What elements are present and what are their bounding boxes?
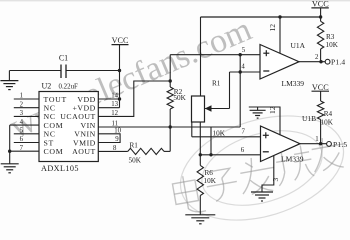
wire U1A power pin 3 bbox=[279, 17, 281, 53]
svg-text:VIN: VIN bbox=[80, 121, 95, 130]
svg-text:12: 12 bbox=[268, 106, 277, 114]
wire pin 12 UCAOUT bbox=[98, 81, 170, 116]
wire VCC rail bbox=[201, 16, 322, 18]
svg-text:+VDD: +VDD bbox=[73, 104, 96, 113]
wire pin 10-9 loop VNIN-VMID bbox=[98, 134, 120, 143]
svg-text:4: 4 bbox=[20, 119, 24, 126]
wire U1B - input row bbox=[200, 154, 260, 156]
svg-text:4: 4 bbox=[241, 64, 245, 71]
IC U2 ADXL105 body bbox=[39, 92, 98, 162]
svg-text:3: 3 bbox=[20, 110, 24, 117]
junction VCC rail / U1A power stub bbox=[278, 15, 281, 18]
svg-text:1: 1 bbox=[20, 93, 23, 100]
wire U1B ground pin 12 bbox=[249, 107, 280, 135]
wire pin 14 bbox=[98, 98, 119, 100]
svg-text:12: 12 bbox=[268, 24, 277, 32]
svg-text:VCC: VCC bbox=[112, 36, 129, 45]
wire U1B output bbox=[300, 143, 327, 145]
svg-text:5: 5 bbox=[242, 47, 246, 54]
resistor R1 50K (horizontal) bbox=[128, 148, 164, 154]
op-amp U1B LM339 bbox=[261, 126, 301, 162]
svg-text:5: 5 bbox=[20, 128, 24, 135]
svg-text:VDD: VDD bbox=[77, 95, 95, 104]
svg-text:TOUT: TOUT bbox=[44, 95, 67, 104]
op-amp U1A LM339 bbox=[260, 45, 299, 80]
svg-text:2: 2 bbox=[315, 54, 319, 61]
wire pin 13 bbox=[98, 107, 119, 109]
svg-text:7: 7 bbox=[241, 129, 245, 136]
junction node B (VIN/R1/R2) bbox=[169, 125, 172, 128]
wire pin 2 bbox=[14, 107, 39, 109]
junction pin7/bus bbox=[8, 150, 11, 153]
wire pin 4 bbox=[10, 124, 39, 126]
svg-text:10K: 10K bbox=[321, 119, 334, 127]
svg-text:R1: R1 bbox=[212, 79, 221, 87]
resistor R6 10K bbox=[197, 165, 203, 195]
wire VCC down to pins 14,13 bbox=[119, 71, 121, 108]
svg-text:9: 9 bbox=[115, 136, 119, 143]
resistor R3 10K bbox=[320, 17, 322, 21]
svg-text:COM: COM bbox=[44, 147, 64, 156]
ground (C1 left) bbox=[0, 71, 18, 90]
svg-text:3: 3 bbox=[271, 178, 280, 182]
svg-text:AOUT: AOUT bbox=[72, 147, 96, 156]
wire pin 6 bbox=[14, 142, 39, 144]
junction VCC/C1 bbox=[118, 69, 121, 72]
svg-text:6: 6 bbox=[20, 136, 24, 143]
pot wiper arrow bbox=[205, 72, 230, 112]
svg-text:UCAOUT: UCAOUT bbox=[60, 112, 96, 121]
ground (U1B pin12) bbox=[250, 107, 266, 118]
ground (U1B pin3) bbox=[251, 192, 273, 201]
terminal P1.4 bbox=[325, 59, 330, 64]
wire U1B pin 3 to ground bbox=[262, 156, 274, 192]
svg-text:R1: R1 bbox=[130, 142, 139, 150]
svg-text:NC: NC bbox=[44, 104, 56, 113]
power VCC (top left) bbox=[112, 36, 129, 71]
junction node B riser / pin6 wire bbox=[209, 153, 212, 156]
junction R4 / U1B output bbox=[319, 142, 322, 145]
capacitor C1 bbox=[61, 65, 66, 79]
junction signal riser / pin5 wire bbox=[239, 53, 242, 56]
wire pin 5 bbox=[14, 133, 39, 135]
resistor R2 50K bbox=[167, 87, 173, 109]
svg-text:14: 14 bbox=[111, 93, 118, 100]
wire node B down to U1B - bbox=[210, 127, 212, 155]
power VCC (top right) bbox=[311, 0, 329, 17]
wire to U1A + (pin 5) bbox=[170, 54, 260, 56]
wire U1A output bbox=[299, 61, 325, 63]
svg-text:2: 2 bbox=[20, 101, 24, 108]
wire pin 11 VIN bbox=[98, 126, 170, 128]
svg-text:10K: 10K bbox=[326, 41, 339, 49]
svg-text:LM339: LM339 bbox=[281, 155, 304, 164]
svg-text:LM339: LM339 bbox=[282, 79, 305, 88]
svg-text:U1B: U1B bbox=[302, 114, 316, 123]
wire signal riser to comparators bbox=[239, 55, 241, 127]
svg-text:P1.4: P1.4 bbox=[331, 58, 345, 67]
watermark: CJK chars bbox=[171, 173, 206, 215]
svg-text:10: 10 bbox=[114, 127, 121, 134]
svg-text:VMID: VMID bbox=[73, 138, 96, 147]
svg-text:10K: 10K bbox=[204, 177, 217, 185]
svg-text:R6: R6 bbox=[205, 169, 214, 177]
terminal P1.5 bbox=[327, 142, 332, 147]
svg-text:U2: U2 bbox=[42, 82, 52, 91]
svg-text:50K: 50K bbox=[129, 157, 142, 165]
wire R2 top corner / pin5 net bbox=[169, 55, 171, 87]
svg-text:COM: COM bbox=[44, 121, 64, 130]
svg-text:VNIN: VNIN bbox=[74, 130, 96, 139]
ground (left bus) bbox=[1, 164, 19, 173]
wire pin 7 bbox=[10, 150, 39, 152]
wire pin 8 AOUT bbox=[98, 150, 128, 152]
ground (R6) bbox=[185, 215, 215, 224]
wire to U1A - (pin 4) bbox=[230, 71, 261, 73]
wire C1 right to VCC stem bbox=[66, 70, 120, 72]
wire pin 1 bbox=[14, 98, 39, 100]
watermark: big gray arcs (site logo) bbox=[168, 98, 350, 239]
potentiometer R1 10K body bbox=[192, 96, 205, 122]
junction R3 / U1A output bbox=[319, 60, 322, 63]
resistor R4 10K bbox=[317, 101, 323, 120]
svg-text:C1: C1 bbox=[59, 54, 68, 63]
svg-text:NC: NC bbox=[44, 112, 56, 121]
junction VCC rail / R3 bbox=[319, 15, 322, 18]
wire left bus (COM/ST to ground) bbox=[9, 125, 11, 164]
svg-text:13: 13 bbox=[111, 101, 118, 108]
junction signal riser / pin4 wire bbox=[239, 70, 242, 73]
svg-text:R3: R3 bbox=[326, 33, 335, 41]
wire R1 right riser bbox=[169, 127, 171, 151]
svg-text:ADXL105: ADXL105 bbox=[41, 164, 79, 173]
svg-text:P1.5: P1.5 bbox=[333, 140, 347, 149]
power VCC (above R4) bbox=[312, 83, 330, 101]
junction pin 14 / VCC stem bbox=[118, 97, 121, 100]
svg-text:10K: 10K bbox=[213, 129, 226, 137]
junction pin12 / R2 riser bbox=[169, 79, 172, 82]
svg-text:NC: NC bbox=[44, 130, 56, 139]
svg-text:50K: 50K bbox=[173, 94, 186, 102]
svg-text:ST: ST bbox=[44, 138, 55, 147]
svg-text:12: 12 bbox=[111, 110, 118, 117]
svg-text:R4: R4 bbox=[324, 110, 333, 118]
svg-text:1: 1 bbox=[315, 136, 318, 143]
svg-text:8: 8 bbox=[113, 145, 117, 152]
svg-text:0.22uF: 0.22uF bbox=[59, 84, 79, 91]
svg-text:U1A: U1A bbox=[291, 41, 306, 50]
wire pin 3 bbox=[14, 115, 39, 117]
wire C1 left bbox=[9, 70, 61, 72]
svg-text:6: 6 bbox=[241, 147, 245, 154]
junction pot column / pin6 wire bbox=[199, 153, 202, 156]
wire pot bottom column bbox=[199, 122, 201, 165]
wire R6 to ground bbox=[199, 196, 201, 215]
wire node B to riser bbox=[170, 126, 240, 128]
wire rail down to pot bbox=[200, 17, 202, 96]
svg-text:7: 7 bbox=[20, 145, 24, 152]
wire pot bottom to U1B + bbox=[191, 122, 193, 137]
